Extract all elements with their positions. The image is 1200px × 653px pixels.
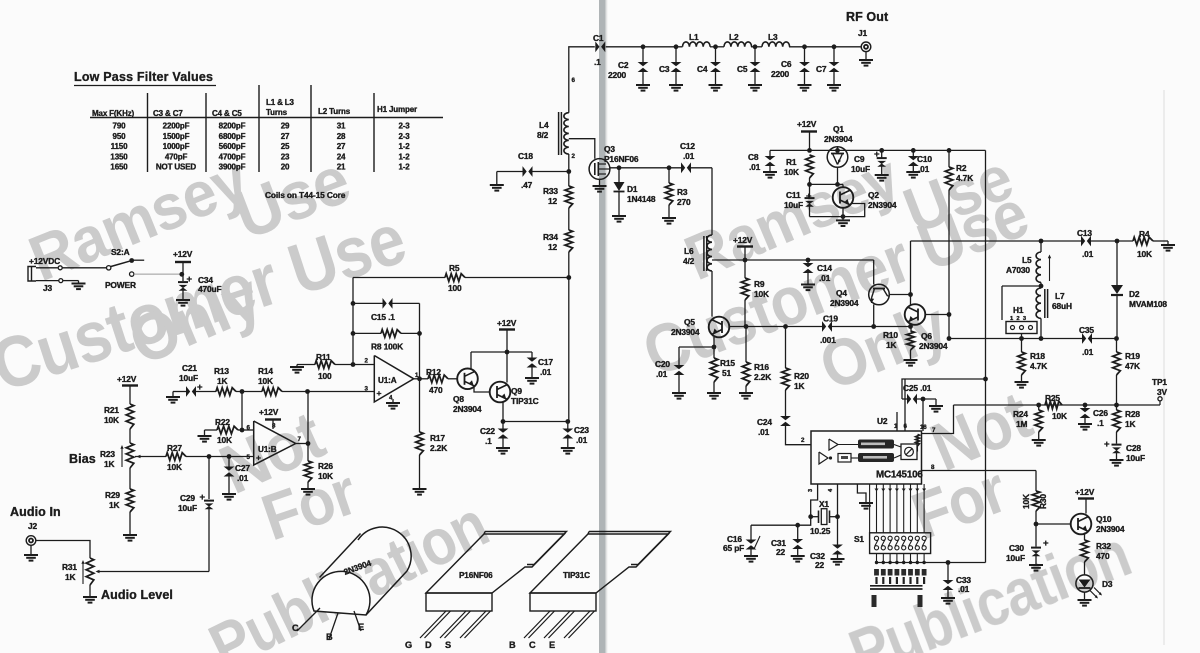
svg-text:C1: C1 — [593, 33, 604, 43]
svg-text:1K: 1K — [109, 500, 120, 510]
connector J3 — [28, 267, 36, 282]
S1 tiny labels — [874, 569, 879, 576]
svg-text:8200pF: 8200pF — [219, 122, 246, 131]
svg-text:+: + — [377, 388, 382, 398]
svg-text:+12V: +12V — [733, 235, 753, 245]
svg-text:X1: X1 — [819, 499, 829, 509]
svg-text:C29: C29 — [180, 493, 195, 503]
svg-text:2-3: 2-3 — [398, 132, 410, 141]
P16NF06 leads — [420, 611, 446, 638]
svg-text:C10: C10 — [917, 154, 932, 164]
capacitor C6 — [804, 47, 806, 63]
ground at C16 — [744, 555, 758, 557]
svg-text:D: D — [425, 640, 432, 650]
wire Q5 collector row — [730, 326, 824, 328]
ground at C30 — [1029, 564, 1043, 566]
svg-text:C9: C9 — [854, 154, 865, 164]
ground at R26 — [307, 482, 309, 489]
ground at C34 — [176, 299, 190, 301]
capacitor C30 10uF — [1035, 524, 1037, 547]
svg-text:1150: 1150 — [111, 142, 128, 151]
svg-text:C11: C11 — [786, 190, 801, 200]
svg-text:Q6: Q6 — [921, 331, 932, 341]
svg-text:2200: 2200 — [771, 69, 790, 79]
wire R11 to U1A pin2 — [335, 364, 374, 366]
node pin3 feedback junction — [305, 389, 310, 394]
transistor Q2 2N3904 — [833, 187, 854, 208]
node R13 R14 junction — [240, 389, 245, 394]
wire Q8 emitter to Q9 base — [474, 387, 490, 393]
svg-text:+12V: +12V — [117, 374, 137, 384]
svg-text:R18: R18 — [1030, 351, 1045, 361]
U2 internal phase detector — [901, 444, 917, 460]
svg-text:C25 .01: C25 .01 — [903, 383, 932, 393]
svg-text:L1 & L3: L1 & L3 — [266, 98, 295, 107]
svg-text:Q2: Q2 — [868, 190, 879, 200]
capacitor C4 — [715, 47, 717, 63]
U2 internal wires — [838, 444, 858, 446]
2N3904 leads — [297, 608, 320, 631]
resistor R13 1K — [216, 388, 236, 396]
ground at C31 — [791, 555, 805, 557]
svg-text:MVAM108: MVAM108 — [1129, 299, 1167, 309]
svg-text:R25: R25 — [1045, 393, 1060, 403]
svg-text:.01: .01 — [749, 162, 761, 172]
svg-text:C: C — [292, 623, 299, 633]
ground at D1 — [612, 215, 626, 217]
resistor R21 10K — [126, 404, 134, 429]
wire H1 row — [949, 338, 1082, 340]
svg-text:.47: .47 — [521, 180, 533, 190]
svg-text:R12: R12 — [426, 367, 441, 377]
svg-text:C3 & C7: C3 & C7 — [153, 109, 183, 118]
ground at R11 — [296, 365, 298, 368]
resistor R28 1K — [1116, 405, 1118, 410]
resistor R4 10K — [1133, 237, 1153, 245]
wire Q4 emitter — [873, 305, 875, 327]
connector J2 — [26, 536, 36, 546]
book fold shadow left — [508, 0, 652, 653]
resistor R20 1K — [785, 327, 787, 369]
svg-text:.01: .01 — [576, 435, 588, 445]
svg-text:R1: R1 — [786, 157, 797, 167]
svg-text:L1: L1 — [689, 32, 699, 42]
wire C12 to L6 — [711, 168, 713, 235]
svg-text:2N3904: 2N3904 — [919, 341, 948, 351]
svg-text:R23: R23 — [100, 449, 115, 459]
node R1 top — [807, 148, 812, 153]
svg-text:G: G — [405, 640, 412, 650]
svg-text:R20: R20 — [794, 371, 809, 381]
svg-text:U1:A: U1:A — [378, 376, 397, 385]
svg-text:C24: C24 — [757, 417, 772, 427]
svg-text:R34: R34 — [543, 232, 558, 242]
wire Q9 collector — [506, 352, 508, 383]
svg-text:10K: 10K — [784, 167, 799, 177]
capacitor C28 10uF — [1116, 432, 1118, 444]
svg-text:10uF: 10uF — [179, 373, 198, 383]
svg-text:L4: L4 — [539, 120, 549, 130]
svg-text:65 pF: 65 pF — [723, 543, 744, 553]
wire L6 tap row — [712, 259, 874, 261]
svg-text:1K: 1K — [65, 572, 76, 582]
svg-text:29: 29 — [281, 122, 290, 131]
svg-text:C30: C30 — [1009, 543, 1024, 553]
node C27 top — [227, 454, 232, 459]
ground at C28 — [1110, 459, 1124, 461]
svg-text:Q1: Q1 — [833, 124, 844, 134]
svg-text:C5: C5 — [737, 64, 748, 74]
U2 internal divider box — [838, 454, 851, 463]
svg-text:8/2: 8/2 — [537, 130, 549, 140]
resistor R16 2.2K — [745, 327, 747, 363]
capacitor C21 10uF — [173, 391, 186, 393]
svg-text:10K: 10K — [1052, 411, 1067, 421]
resistor R30 10K — [1035, 471, 1037, 492]
U2 programming bus — [869, 484, 871, 533]
capacitor C16 65pF trimmer — [750, 525, 752, 540]
capacitor C29 10uF — [208, 457, 210, 500]
svg-text:C12: C12 — [680, 141, 695, 151]
resistor R15 51 — [710, 358, 718, 382]
watermark text — [0, 141, 1140, 653]
svg-text:Q4: Q4 — [836, 288, 847, 298]
wire +12V distribution rail — [770, 149, 986, 151]
svg-text:20: 20 — [281, 163, 290, 172]
svg-text:Q8: Q8 — [453, 394, 464, 404]
svg-text:10uF: 10uF — [178, 503, 197, 513]
svg-text:R8 100K: R8 100K — [371, 342, 403, 352]
resistor R1 10K — [806, 155, 814, 178]
capacitor C12 .01 — [681, 162, 685, 173]
wire H1 pin2 down — [1021, 334, 1023, 339]
capacitor C3 — [675, 47, 677, 63]
svg-text:L3: L3 — [768, 32, 778, 42]
svg-text:24: 24 — [337, 152, 346, 161]
S1 output stubs — [876, 554, 878, 563]
wire J3 to switch — [62, 267, 106, 269]
svg-text:L5: L5 — [1022, 255, 1032, 265]
svg-text:C19: C19 — [823, 314, 838, 324]
resistor R10 1K — [907, 331, 915, 350]
svg-text:10K: 10K — [754, 289, 769, 299]
svg-text:R17: R17 — [430, 433, 445, 443]
svg-text:.01: .01 — [540, 367, 552, 377]
capacitor C1 .1 — [595, 41, 599, 52]
transistor Q8 2N3904 — [457, 369, 478, 390]
wire modulated rail C22 C23 — [503, 421, 568, 423]
svg-text:2200: 2200 — [608, 70, 627, 80]
svg-text:R24: R24 — [1013, 409, 1028, 419]
svg-text:4.7K: 4.7K — [1030, 361, 1047, 371]
svg-text:Bias: Bias — [69, 452, 96, 466]
resistor R25 10K — [1045, 401, 1062, 409]
inductor L7 68uH — [1036, 288, 1041, 318]
svg-text:+12V: +12V — [173, 249, 193, 259]
inductor L2 — [724, 42, 752, 47]
svg-text:L7: L7 — [1055, 291, 1065, 301]
wire filter rail — [710, 46, 724, 48]
svg-text:+: + — [1043, 538, 1049, 549]
svg-text:Audio Level: Audio Level — [101, 588, 173, 602]
svg-text:C8: C8 — [748, 152, 759, 162]
U2 internal buffer 2 — [819, 452, 828, 464]
wire Q3 to D1 R3 C12 — [610, 167, 681, 169]
wire L4 bottom — [568, 154, 570, 172]
svg-text:C4: C4 — [697, 64, 708, 74]
svg-text:R4: R4 — [1139, 229, 1150, 239]
diode D2 MVAM108 — [1116, 241, 1118, 285]
svg-text:3900pF: 3900pF — [219, 163, 246, 172]
wire J2 to R31 — [36, 541, 90, 559]
ground at Q3 — [599, 179, 601, 186]
svg-text:TIP31C: TIP31C — [511, 396, 539, 406]
transistor Q3 P16NF06 mosfet — [589, 159, 610, 180]
resistor R8 100K — [353, 332, 381, 334]
arrow L5 tuning — [1049, 257, 1051, 281]
svg-text:R9: R9 — [754, 279, 765, 289]
resistor R22 10K — [217, 426, 238, 434]
svg-text:E: E — [358, 622, 364, 632]
capacitor C26 .1 — [1084, 405, 1086, 409]
wire R22 node vertical — [241, 392, 243, 431]
svg-text:4700pF: 4700pF — [219, 152, 246, 161]
svg-text:12: 12 — [548, 196, 558, 206]
right page edge shading — [1150, 0, 1200, 653]
wire U1B feedback vertical — [307, 392, 309, 444]
wire Q6 base — [925, 314, 949, 316]
ground at J3 — [63, 280, 79, 282]
svg-text:S1: S1 — [854, 534, 864, 544]
ground at C32 — [831, 558, 845, 560]
TIP31C leads — [524, 611, 550, 638]
svg-text:R11: R11 — [316, 352, 331, 362]
transistor Q6 2N3904 — [905, 304, 926, 325]
wire feedback left vertical — [352, 278, 354, 365]
wire R19 to TP1 row — [1116, 375, 1118, 405]
svg-text:+: + — [187, 274, 193, 285]
test point TP1 — [1159, 401, 1161, 405]
wire R23 wiper to R27 — [135, 456, 166, 458]
resistor R17 2.2K — [416, 432, 424, 455]
wire R21 to R23 — [129, 429, 131, 443]
svg-text:+12V: +12V — [797, 119, 817, 129]
resistor R14 10K — [262, 388, 282, 396]
ground at C22 — [496, 447, 510, 449]
capacitor C17 .01 — [531, 352, 533, 358]
ground at C18 — [496, 172, 498, 186]
resistor R9 10K — [741, 278, 749, 300]
wire Q2 collector loop — [810, 204, 865, 217]
svg-text:2N3904: 2N3904 — [868, 200, 897, 210]
U2 pin16 stub — [922, 399, 924, 431]
svg-text:2N3904: 2N3904 — [824, 134, 853, 144]
wire Q4 collector — [889, 294, 911, 296]
IC U2 MC145106 — [811, 431, 922, 484]
resistor R26 10K — [307, 444, 309, 462]
svg-text:Q10: Q10 — [1096, 514, 1112, 524]
resistor R5 100 — [353, 277, 445, 279]
capacitor C33 .01 — [947, 563, 949, 581]
svg-text:Turns: Turns — [266, 108, 288, 117]
svg-text:C22: C22 — [480, 426, 495, 436]
svg-text:.1: .1 — [594, 57, 601, 67]
svg-text:10K: 10K — [217, 435, 232, 445]
resistor R2 4.7K — [947, 148, 952, 153]
resistor R34 12 — [565, 230, 573, 252]
svg-text:12: 12 — [548, 242, 558, 252]
svg-text:10K: 10K — [258, 376, 273, 386]
wire Q5 emitter — [713, 337, 715, 358]
wire R31 wiper — [97, 571, 209, 573]
svg-text:.01: .01 — [1082, 347, 1094, 357]
capacitor C24 .01 — [785, 390, 787, 417]
capacitor C20 .01 — [678, 347, 680, 366]
svg-text:1-2: 1-2 — [398, 163, 410, 172]
diode D1 1N4148 — [618, 168, 620, 182]
capacitor C35 .01 — [1082, 333, 1086, 344]
wire R33 to R34 — [568, 208, 570, 230]
capacitor C7 — [833, 47, 835, 63]
svg-text:P16NF06: P16NF06 — [604, 154, 639, 164]
svg-text:C28: C28 — [1126, 443, 1141, 453]
node L5 L7 — [1040, 283, 1042, 289]
svg-text:2-3: 2-3 — [398, 122, 410, 131]
wire loop filter row — [954, 404, 1161, 406]
svg-text:R13: R13 — [214, 366, 229, 376]
right page edge line — [1163, 90, 1165, 645]
svg-text:+12V: +12V — [259, 407, 279, 417]
node C7 tap — [832, 44, 837, 49]
svg-text:+: + — [806, 191, 812, 202]
book fold crease — [599, 0, 606, 653]
svg-text:2.2K: 2.2K — [754, 372, 771, 382]
svg-text:E: E — [549, 640, 555, 650]
wire L4 tap to Q3 — [569, 139, 595, 159]
svg-text:R32: R32 — [1096, 541, 1111, 551]
svg-text:C7: C7 — [816, 64, 827, 74]
wire U1A output to R12 — [414, 378, 428, 380]
svg-text:1N4148: 1N4148 — [627, 194, 656, 204]
top left corner gradient — [430, 0, 520, 110]
capacitor C15 .1 — [353, 302, 383, 304]
svg-text:1M: 1M — [1016, 419, 1028, 429]
svg-text:D2: D2 — [1129, 289, 1140, 299]
svg-text:28: 28 — [337, 132, 346, 141]
capacitor C13 .01 — [1081, 236, 1085, 247]
svg-text:C17: C17 — [538, 357, 553, 367]
svg-text:25: 25 — [281, 142, 290, 151]
wire X1 to C16 C31 — [751, 517, 811, 526]
svg-text:23: 23 — [281, 152, 290, 161]
svg-text:R19: R19 — [1125, 351, 1140, 361]
svg-text:+12VDC: +12VDC — [29, 256, 60, 266]
svg-text:2N3904: 2N3904 — [453, 404, 482, 414]
resistor R24 1M — [1038, 405, 1040, 410]
capacitor C34 470uF — [182, 274, 184, 281]
capacitor C2 — [642, 47, 644, 63]
svg-text:4.7K: 4.7K — [956, 173, 973, 183]
svg-text:.01: .01 — [656, 369, 668, 379]
ground at U1A pin4 — [392, 399, 394, 403]
svg-text:R31: R31 — [62, 562, 77, 572]
capacitor C5 — [754, 47, 756, 63]
resistor R18 4.7K — [1018, 352, 1026, 375]
svg-text:47K: 47K — [1125, 361, 1140, 371]
transistor Q5 2N3904 — [709, 317, 730, 338]
svg-text:5600pF: 5600pF — [219, 142, 246, 151]
U2 pin5 wire to ground — [857, 484, 866, 503]
ground at J2 — [30, 545, 32, 555]
resistor R32 470 — [1081, 540, 1089, 562]
svg-text:Low Pass Filter Values: Low Pass Filter Values — [74, 70, 213, 84]
wire R34 node to C23 node — [568, 278, 570, 422]
potentiometer R31 1K — [86, 558, 94, 585]
svg-text:270: 270 — [677, 197, 691, 207]
svg-text:J3: J3 — [43, 283, 53, 293]
wire C25 top link — [902, 379, 986, 399]
svg-text:.001: .001 — [820, 335, 836, 345]
svg-text:R3: R3 — [677, 187, 688, 197]
svg-text:6800pF: 6800pF — [219, 132, 246, 141]
transistor Q10 2N3904 — [1071, 514, 1092, 535]
node C18 R33 — [566, 169, 571, 174]
svg-text:10K: 10K — [104, 415, 119, 425]
svg-text:Q3: Q3 — [604, 144, 615, 154]
op-amp U1:B — [254, 421, 296, 465]
ground at R31 — [89, 585, 91, 597]
svg-text:100: 100 — [318, 371, 332, 381]
ground at R17 — [419, 455, 421, 489]
wire C1 to filter — [606, 46, 683, 48]
ground at C20 — [672, 392, 686, 394]
U2 pin6 riser — [904, 379, 906, 431]
svg-text:Q9: Q9 — [511, 386, 522, 396]
wire +12V rail to C17 — [471, 351, 532, 353]
wire R34 down — [568, 252, 570, 278]
svg-text:.01: .01 — [958, 584, 970, 594]
svg-text:R10: R10 — [883, 330, 898, 340]
svg-text:1K: 1K — [794, 381, 805, 391]
wire S1 common bus — [877, 562, 986, 564]
svg-text:L2 Turns: L2 Turns — [318, 107, 351, 116]
wire L6 bottom to Q5 — [711, 271, 713, 317]
table Low Pass Filter grid — [147, 93, 149, 172]
ground at R22 — [204, 430, 206, 436]
svg-text:H1: H1 — [1013, 305, 1024, 315]
svg-text:D3: D3 — [1102, 579, 1113, 589]
svg-text:10uF: 10uF — [784, 200, 803, 210]
svg-text:27: 27 — [337, 142, 346, 151]
wire output vertical — [419, 303, 421, 432]
capacitor C31 22 — [797, 525, 799, 539]
svg-text:R2: R2 — [956, 163, 967, 173]
svg-text:C23: C23 — [574, 425, 589, 435]
ground at C17 — [525, 377, 539, 379]
ground at C14 — [801, 284, 815, 286]
svg-text:MC145106: MC145106 — [876, 470, 923, 481]
svg-text:R22: R22 — [215, 417, 230, 427]
svg-text:470pF: 470pF — [165, 152, 188, 161]
svg-text:S: S — [445, 640, 451, 650]
svg-text:C6: C6 — [781, 59, 792, 69]
node D1 — [617, 165, 622, 170]
svg-text:10K: 10K — [318, 471, 333, 481]
transistor Q4 2N3904 — [869, 284, 890, 305]
svg-text:22: 22 — [815, 560, 825, 570]
capacitor C9 10uF — [879, 148, 884, 153]
svg-text:C14: C14 — [817, 263, 832, 273]
